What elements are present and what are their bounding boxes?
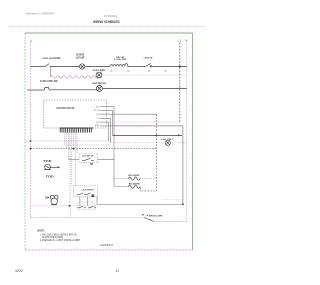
svg-text:oven light sw: oven light sw: [92, 82, 106, 85]
svg-text:LOCK SWITCH: LOCK SWITCH: [82, 190, 94, 192]
dashed row y145: [65, 144, 111, 146]
wire row1 mid segment: [51, 66, 80, 68]
svg-text:DM: DM: [45, 195, 49, 199]
svg-text:FRT8G6AQ: FRT8G6AQ: [104, 14, 118, 18]
outer cabinet box right border: [192, 33, 194, 250]
branch stub down from switch to lamp wave: [49, 67, 51, 78]
svg-text:4. ENERGIZE 2N - A DOUT ATND: 4. ENERGIZE 2N - A DOUT ATND BL-AL ABBT: [40, 239, 80, 242]
connector baseline under hatch: [60, 127, 94, 129]
bottom dashed row y217.5: [31, 217, 145, 219]
broil element right lead dotted: [140, 178, 156, 180]
oven lamp C: [96, 85, 102, 91]
outer cabinet box top border: [25, 32, 193, 34]
svg-text:LATCH SW: LATCH SW: [144, 57, 153, 60]
junction dot at L1 rail: [179, 66, 181, 68]
TOD arrow wire: [50, 166, 59, 168]
dashed row y141: [31, 140, 113, 142]
N rail: [186, 43, 188, 222]
junction dot at vertical B: [156, 135, 158, 137]
svg-text:LOCK MTR SW: LOCK MTR SW: [82, 155, 94, 157]
pin bundle vertical wire 7: [74, 133, 76, 186]
svg-text:BK: BK: [90, 164, 94, 166]
lower switch pair: [78, 206, 97, 208]
svg-text:LIGHT: LIGHT: [76, 56, 86, 59]
svg-text:Publication No: 5995393674: Publication No: 5995393674: [26, 12, 55, 16]
wire row1 to L1 rail: [153, 66, 187, 68]
wire row1 segment to latch switch: [128, 66, 143, 68]
solid row y204.3 to right vertical: [97, 203, 183, 205]
12VDC indicator circle: [165, 140, 170, 145]
svg-text:BR 3000W: BR 3000W: [128, 175, 140, 177]
wire row3 left: [27, 89, 42, 91]
lower switch pair enclosure box: [78, 202, 95, 210]
broil element zigzag: [128, 177, 140, 180]
wire from broil switch to N: [154, 220, 187, 222]
lock motor switch symbol: [82, 158, 94, 160]
12VDC wire (pink dashed): [111, 142, 187, 144]
EOC bottom connector pin hatch: [60, 128, 91, 133]
EOC right pin leader lines: [100, 107, 157, 126]
L1 rail: [179, 43, 181, 123]
pin bundle vertical wire 2: [66, 133, 68, 149]
junction dot left rail y141: [30, 140, 32, 142]
electronic oven control box: [44, 100, 107, 128]
svg-text:WIRING SCHEMATIC: WIRING SCHEMATIC: [93, 20, 120, 24]
arrowhead at right vertical: [178, 134, 180, 136]
wire row1 segment to coil: [85, 66, 110, 68]
EOC pin labels right column: [94, 106, 100, 127]
svg-text:BK 2400W: BK 2400W: [129, 182, 141, 185]
wire row3 to lamp C: [51, 89, 97, 91]
oven lamp B: [96, 72, 102, 78]
short dotted stub y199.8: [162, 199, 183, 201]
svg-text:P BROIL WH: P BROIL WH: [147, 215, 164, 217]
lock motor switch box: [79, 154, 97, 163]
junction dot bundle y148.7: [73, 148, 75, 150]
left rail L2 (vertical dash-dot): [30, 43, 32, 218]
svg-text:oven yel lw/blk: oven yel lw/blk: [42, 57, 61, 60]
lock switch lead down 1: [79, 197, 81, 206]
lock motor box left lead: [68, 158, 79, 160]
svg-text:40 INCH PNL SW: 40 INCH PNL SW: [40, 80, 58, 83]
svg-text:BL 41: BL 41: [94, 110, 100, 112]
oven light lamp A: [80, 64, 85, 69]
dashed row y148.7: [31, 148, 157, 150]
outer cabinet box bottom border: [25, 249, 193, 251]
pin bundle vertical wire 3: [67, 133, 69, 160]
EOC descending wire c: [112, 110, 114, 135]
dotted separator line: [8, 26, 206, 28]
dotted neutral wire from lamp B to N rail: [102, 74, 187, 76]
wire row3 to N rail: [102, 88, 186, 90]
pin bundle vertical wire 1: [64, 133, 66, 145]
solid row with arrow to right vertical: [113, 134, 183, 136]
svg-text:6/02: 6/02: [15, 269, 23, 273]
broil switch lever: [144, 218, 154, 222]
EOC descending wire b: [110, 118, 112, 142]
dotted pink row y205.8: [31, 205, 98, 207]
svg-text:oven light: oven light: [93, 69, 106, 72]
EOC descending wire d to elements: [113, 107, 115, 187]
lock switch box: [74, 186, 98, 197]
L1 return wire (dotted pink): [109, 121, 180, 123]
svg-text:12: 12: [116, 269, 120, 273]
svg-text:21025E347: 21025E347: [100, 243, 113, 247]
svg-text:ELECTRONIC OVEN CTRL: ELECTRONIC OVEN CTRL: [57, 106, 75, 110]
svg-text:NOTE:: NOTE:: [37, 228, 45, 232]
wire from EOC to vertical B corner: [140, 114, 157, 191]
lock switch terminal blob: [92, 195, 95, 197]
arrowhead of TOD wire: [58, 166, 60, 168]
coil element (loops): [110, 64, 128, 67]
bake element zigzag: [128, 185, 140, 188]
lock switch contacts: [77, 193, 95, 195]
door motor coil symbol: [50, 195, 58, 204]
svg-text:TOD: TOD: [46, 175, 54, 179]
lock switch lead down 2: [86, 197, 88, 206]
svg-text:N: N: [185, 38, 187, 42]
EOC descending wire a: [108, 122, 110, 141]
TOD thermostat: [44, 164, 51, 170]
junction dot left rail y148.7: [30, 148, 32, 150]
pin bundle vertical wire 5: [71, 133, 73, 186]
arrow mark before label: [142, 214, 144, 216]
bake element left lead: [114, 186, 128, 188]
svg-text:σ: σ: [30, 39, 32, 43]
N return wire to right vertical: [114, 126, 183, 204]
pin bundle vertical wire 8: [76, 133, 78, 154]
outer cabinet box left border: [24, 33, 26, 250]
thermal switch on row3: [42, 87, 51, 90]
bake element right lead: [139, 187, 141, 191]
pin bundle vertical wire 4: [69, 133, 71, 206]
latch switch: [143, 63, 153, 67]
short vertical dashed connector: [70, 206, 72, 218]
oven light switch S1: [44, 64, 51, 67]
lock motor box right lead: [98, 158, 115, 160]
wavy twisted wire to lamp B: [50, 76, 98, 79]
broil element left lead: [114, 178, 128, 180]
junction dot right end: [182, 203, 184, 205]
svg-text:L1: L1: [178, 38, 182, 42]
lock switch right lead down: [96, 197, 98, 205]
pin bundle vertical wire 6: [73, 133, 75, 149]
junction dot on dotted row: [69, 205, 71, 207]
svg-text:TOD: TOD: [43, 159, 52, 163]
svg-text:P CONN & WIRE: P CONN & WIRE: [114, 59, 126, 61]
wire row1 left segment: [31, 66, 45, 68]
